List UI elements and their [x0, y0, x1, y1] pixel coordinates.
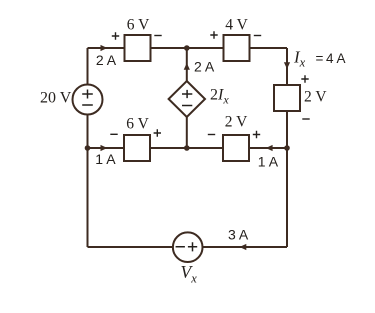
svg-text:2Ix: 2Ix [210, 87, 229, 107]
svg-text:6 V: 6 V [126, 116, 149, 133]
svg-text:2 V: 2 V [304, 89, 327, 106]
current arrow 3 A (bottom, left) [240, 244, 247, 250]
resistor box R1 6 V (top left) [125, 35, 151, 61]
polarity - (middle left box) [110, 133, 117, 135]
svg-text:Ix: Ix [293, 48, 306, 70]
wire middle row [88, 147, 288, 149]
current arrow 2 A (middle branch, up) [184, 63, 190, 70]
polarity - (top right box) [254, 35, 261, 37]
svg-text:=: = [316, 51, 324, 66]
label 2Ix [210, 87, 229, 107]
resistor box R2 4 V (top right) [224, 35, 250, 61]
junction node top middle [184, 45, 190, 51]
polarity - (right box) [302, 118, 309, 120]
svg-text:4 V: 4 V [225, 17, 248, 34]
wire left [87, 48, 89, 247]
svg-text:20 V: 20 V [40, 90, 72, 107]
polarity + (top left box) [112, 32, 119, 39]
resistor box R5 2 V (middle right) [223, 135, 249, 161]
svg-text:2 A: 2 A [96, 52, 117, 68]
svg-text:4 A: 4 A [326, 51, 346, 66]
current arrow Ix (right, down) [284, 62, 290, 69]
svg-text:2 V: 2 V [225, 114, 248, 131]
label Vx [181, 262, 198, 286]
polarity + (top right box) [210, 31, 217, 38]
voltage source V1 20 V [73, 85, 103, 115]
wire right [286, 48, 288, 247]
wire bottom [88, 246, 288, 248]
polarity + (middle right box) [253, 131, 260, 138]
polarity + (right box) [301, 75, 308, 82]
svg-text:3 A: 3 A [228, 227, 249, 243]
svg-text:2 A: 2 A [194, 59, 215, 75]
voltage source V2 Vx (bottom) [173, 232, 203, 262]
current arrow 1 A (middle left, right) [101, 145, 108, 151]
resistor box R3 2 V (right side) [274, 85, 300, 111]
junction node middle right [284, 145, 290, 151]
polarity + (middle left box) [154, 129, 161, 136]
wire top [88, 47, 288, 49]
current arrow 2 A (top left) [101, 45, 108, 51]
label Ix = 4 A [293, 48, 346, 70]
junction node middle center [184, 145, 190, 151]
resistor box R4 6 V (middle left) [124, 135, 150, 161]
svg-text:1 A: 1 A [258, 153, 279, 169]
svg-text:Vx: Vx [181, 262, 198, 286]
junction node middle left [85, 145, 91, 151]
svg-text:6 V: 6 V [127, 17, 150, 34]
wire middle branch [186, 48, 188, 148]
svg-text:1 A: 1 A [95, 151, 116, 167]
polarity - (middle right box) [208, 134, 215, 136]
dependent source D1 2Ix (diamond) [169, 81, 205, 117]
polarity - (top left box) [154, 35, 161, 37]
current arrow 1 A (middle right, left) [266, 145, 273, 151]
